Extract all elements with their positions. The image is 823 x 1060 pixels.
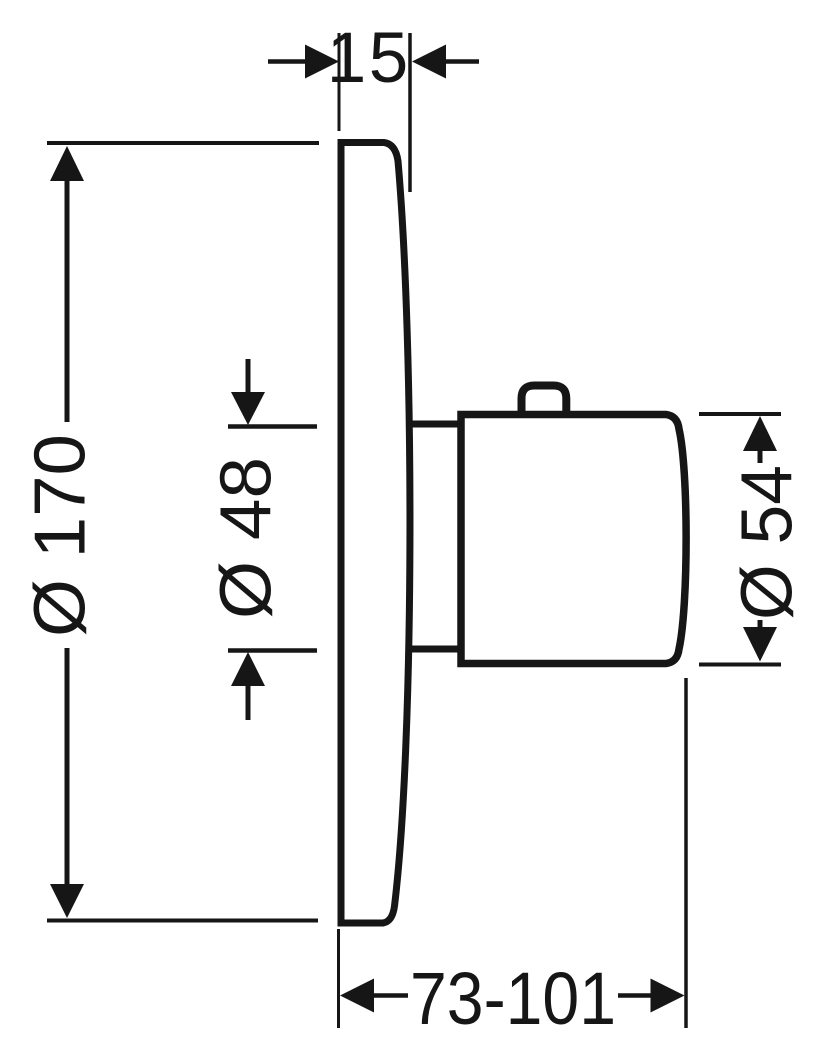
escutcheon plate (side view) — [341, 143, 410, 924]
dim Ø54: bottom arrowhead — [743, 627, 777, 662]
dim Ø48: upper shaft — [246, 359, 251, 393]
valve sleeve bottom line — [409, 646, 464, 653]
dim Ø54: top arrowhead — [743, 416, 777, 451]
dim Ø48: top tick line — [228, 424, 317, 429]
dim Ø170: lower shaft — [65, 648, 70, 886]
dim 15: right extension line — [408, 33, 412, 192]
svg-text:Ø 170: Ø 170 — [21, 434, 101, 637]
dim 73-101: right tail — [618, 993, 652, 998]
svg-text:5: 5 — [369, 19, 409, 98]
svg-text:73-101: 73-101 — [410, 957, 616, 1040]
dim 73-101: left tail — [373, 993, 408, 998]
valve sleeve top line — [409, 421, 464, 428]
handle grip tab — [522, 386, 567, 417]
dim Ø48: lower shaft — [246, 685, 251, 720]
dim 15: left extension line — [338, 33, 341, 131]
dim Ø48: bottom arrowhead — [231, 652, 265, 686]
dim Ø170: upper shaft — [65, 180, 70, 422]
dim 73-101: left arrowhead — [340, 979, 374, 1013]
dim 15: right arrowhead — [412, 45, 446, 79]
dim 73-101: right arrowhead — [651, 979, 685, 1013]
dim Ø48: bottom tick line — [228, 648, 317, 653]
dim 15: left arrowhead — [305, 45, 339, 79]
svg-text:Ø 54: Ø 54 — [728, 465, 808, 620]
svg-text:1: 1 — [327, 19, 367, 98]
dim Ø54: top extension line — [699, 412, 781, 416]
dim Ø48: top arrowhead — [231, 392, 265, 425]
dim Ø170: bottom extension line — [47, 919, 318, 923]
dim 15: left tail — [268, 59, 306, 64]
dim Ø54: lower shaft — [758, 620, 763, 629]
dim 73-101: right extension line — [684, 678, 688, 1028]
thermostat handle body — [461, 415, 686, 664]
dim Ø170: top extension line — [47, 141, 319, 145]
dim 15: right tail — [445, 59, 479, 64]
dim Ø54: upper shaft — [758, 450, 763, 463]
dim Ø170: top arrowhead — [50, 146, 84, 181]
dim Ø170: bottom arrowhead — [50, 884, 84, 918]
dim Ø54: bottom extension line — [699, 663, 781, 667]
dim 73-101: left extension line — [337, 929, 340, 1028]
svg-text:Ø 48: Ø 48 — [207, 457, 287, 619]
